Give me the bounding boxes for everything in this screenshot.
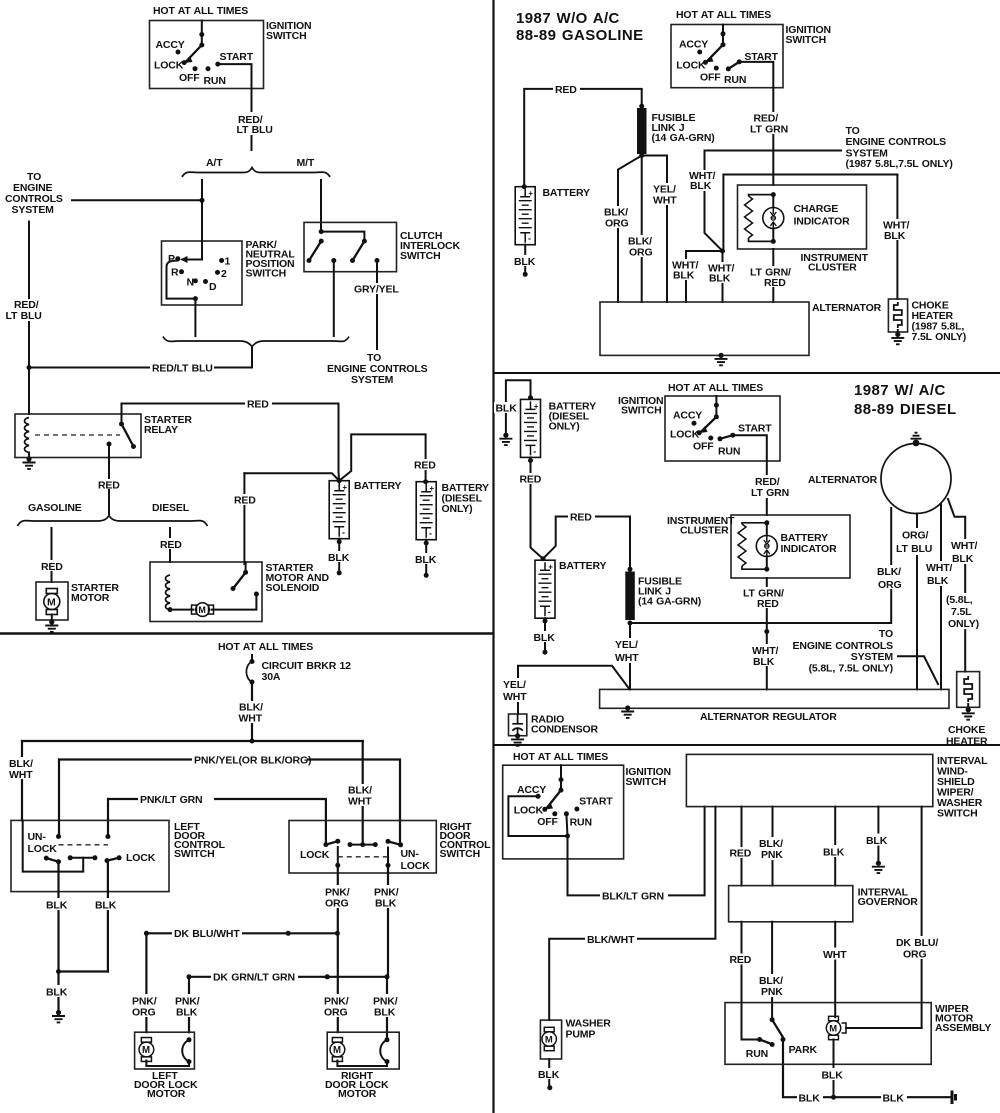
svg-text:88-89 GASOLINE: 88-89 GASOLINE [516, 27, 643, 44]
svg-text:SWITCH: SWITCH [174, 848, 215, 860]
svg-text:PARK: PARK [789, 1044, 818, 1056]
svg-text:WHT/: WHT/ [926, 562, 952, 574]
svg-text:ONLY): ONLY) [549, 421, 580, 433]
svg-text:ACCY: ACCY [679, 39, 708, 51]
svg-text:1987 W/O A/C: 1987 W/O A/C [516, 10, 620, 27]
svg-text:RED: RED [730, 848, 752, 860]
svg-text:PUMP: PUMP [566, 1029, 596, 1041]
svg-text:BLK/WHT: BLK/WHT [587, 934, 635, 946]
svg-text:RED: RED [764, 277, 786, 289]
svg-text:ASSEMBLY: ASSEMBLY [935, 1022, 991, 1034]
svg-text:SWITCH: SWITCH [621, 405, 662, 417]
svg-text:MOTOR: MOTOR [147, 1088, 186, 1100]
svg-text:OFF: OFF [179, 72, 200, 84]
svg-text:RED: RED [730, 954, 752, 966]
svg-text:CLUSTER: CLUSTER [680, 525, 729, 537]
svg-text:LOCK: LOCK [401, 860, 431, 872]
svg-text:DK GRN/LT GRN: DK GRN/LT GRN [213, 972, 295, 984]
svg-text:BLK: BLK [690, 180, 712, 192]
svg-text:SWITCH: SWITCH [626, 776, 667, 788]
svg-text:RED: RED [160, 539, 182, 551]
svg-text:HOT AT ALL TIMES: HOT AT ALL TIMES [513, 751, 608, 763]
svg-text:ACCY: ACCY [517, 784, 546, 796]
svg-text:GASOLINE: GASOLINE [28, 502, 82, 514]
svg-text:SOLENOID: SOLENOID [266, 582, 320, 594]
svg-text:WHT: WHT [9, 769, 33, 781]
svg-text:SWITCH: SWITCH [246, 268, 287, 280]
svg-text:LT BLU: LT BLU [6, 310, 42, 322]
svg-text:CHOKE: CHOKE [948, 724, 985, 736]
svg-text:30A: 30A [262, 671, 281, 683]
svg-text:WHT: WHT [239, 713, 263, 725]
svg-text:ALTERNATOR: ALTERNATOR [812, 302, 882, 314]
svg-text:BLK: BLK [709, 273, 731, 285]
svg-text:HOT AT ALL TIMES: HOT AT ALL TIMES [153, 5, 248, 17]
svg-text:ACCY: ACCY [156, 39, 185, 51]
svg-text:START: START [220, 51, 254, 63]
svg-text:LOCK: LOCK [676, 60, 706, 72]
svg-text:YEL/: YEL/ [615, 639, 638, 651]
svg-text:RED: RED [555, 84, 577, 96]
svg-text:GRY/YEL: GRY/YEL [354, 284, 399, 296]
svg-text:SWITCH: SWITCH [400, 250, 441, 262]
svg-text:BLK/LT GRN: BLK/LT GRN [602, 891, 664, 903]
svg-text:ORG: ORG [325, 898, 348, 910]
svg-text:ALTERNATOR REGULATOR: ALTERNATOR REGULATOR [700, 711, 837, 723]
svg-text:7.5L: 7.5L [951, 606, 972, 618]
svg-text:LOCK: LOCK [514, 805, 544, 817]
svg-text:RED: RED [41, 561, 63, 573]
svg-text:LOCK: LOCK [28, 843, 58, 855]
svg-text:LOCK: LOCK [154, 60, 184, 72]
svg-text:PNK: PNK [761, 986, 783, 998]
svg-text:RED: RED [757, 598, 779, 610]
svg-text:CLUSTER: CLUSTER [808, 262, 857, 274]
svg-text:HOT AT ALL TIMES: HOT AT ALL TIMES [676, 9, 771, 21]
svg-text:BLK: BLK [496, 403, 518, 415]
svg-text:RUN: RUN [724, 74, 746, 86]
svg-text:LOCK: LOCK [126, 852, 156, 864]
svg-text:CHARGE: CHARGE [794, 203, 839, 215]
svg-text:MOTOR: MOTOR [338, 1088, 377, 1100]
svg-text:M/T: M/T [297, 157, 315, 169]
svg-text:LOCK: LOCK [300, 849, 330, 861]
svg-text:BLK: BLK [753, 656, 775, 668]
svg-text:ORG: ORG [878, 579, 901, 591]
svg-text:R: R [171, 267, 179, 279]
svg-text:BATTERY: BATTERY [543, 187, 591, 199]
svg-text:ACCY: ACCY [673, 410, 702, 422]
svg-text:RED: RED [247, 399, 269, 411]
svg-text:ORG: ORG [324, 1007, 347, 1019]
svg-text:P: P [168, 253, 175, 265]
svg-text:BLK/: BLK/ [877, 566, 901, 578]
svg-text:1987 W/ A/C: 1987 W/ A/C [854, 382, 946, 399]
svg-text:UN-: UN- [28, 831, 47, 843]
svg-text:BLK: BLK [799, 1093, 821, 1105]
svg-text:(1987 5.8L,7.5L ONLY): (1987 5.8L,7.5L ONLY) [846, 158, 953, 170]
svg-text:RELAY: RELAY [144, 424, 178, 436]
svg-text:BLK: BLK [884, 230, 906, 242]
svg-text:BLK: BLK [822, 1070, 844, 1082]
svg-text:RED/LT BLU: RED/LT BLU [152, 363, 213, 375]
svg-text:BLK: BLK [46, 987, 68, 999]
svg-text:TO: TO [879, 628, 893, 640]
svg-text:BLK: BLK [375, 898, 397, 910]
svg-text:ONLY): ONLY) [442, 503, 473, 515]
svg-text:BLK: BLK [415, 554, 437, 566]
svg-text:RUN: RUN [570, 817, 592, 829]
svg-text:BLK: BLK [866, 835, 888, 847]
svg-text:RUN: RUN [746, 1048, 768, 1060]
svg-text:ORG: ORG [629, 247, 652, 259]
svg-text:(5.8L, 7.5L ONLY): (5.8L, 7.5L ONLY) [809, 663, 893, 675]
svg-text:WHT: WHT [615, 652, 639, 664]
svg-text:WHT: WHT [503, 691, 527, 703]
svg-text:BLK: BLK [95, 900, 117, 912]
svg-text:A/T: A/T [206, 157, 223, 169]
svg-text:BLK: BLK [328, 552, 350, 564]
svg-text:PNK: PNK [761, 849, 783, 861]
svg-text:ORG/: ORG/ [902, 530, 928, 542]
svg-text:BLK: BLK [176, 1007, 198, 1019]
svg-text:BLK: BLK [883, 1093, 905, 1105]
svg-text:(14 GA-GRN): (14 GA-GRN) [652, 132, 715, 144]
svg-text:SWITCH: SWITCH [937, 808, 978, 820]
svg-text:BLK: BLK [823, 847, 845, 859]
svg-text:LT GRN: LT GRN [751, 487, 789, 499]
svg-text:SWITCH: SWITCH [440, 848, 481, 860]
svg-text:SYSTEM: SYSTEM [851, 651, 894, 663]
svg-text:RED: RED [234, 495, 256, 507]
svg-text:DK BLU/: DK BLU/ [896, 937, 938, 949]
svg-text:1: 1 [225, 256, 231, 268]
svg-text:RED: RED [570, 512, 592, 524]
svg-text:DK BLU/WHT: DK BLU/WHT [174, 928, 240, 940]
svg-text:ORG: ORG [903, 949, 926, 961]
svg-text:START: START [579, 796, 613, 808]
svg-text:CONDENSOR: CONDENSOR [531, 724, 598, 736]
svg-text:ORG: ORG [132, 1007, 155, 1019]
svg-text:PNK/YEL(OR BLK/ORG): PNK/YEL(OR BLK/ORG) [194, 755, 311, 767]
svg-text:ONLY): ONLY) [948, 618, 979, 630]
svg-text:HEATER: HEATER [946, 736, 988, 748]
svg-text:SWITCH: SWITCH [266, 30, 307, 42]
svg-text:OFF: OFF [693, 441, 714, 453]
svg-text:BLK: BLK [514, 256, 536, 268]
svg-text:WHT: WHT [348, 796, 372, 808]
svg-text:D: D [209, 281, 217, 293]
svg-text:2: 2 [221, 268, 227, 280]
svg-text:WHT/: WHT/ [951, 540, 977, 552]
svg-text:MOTOR: MOTOR [71, 592, 110, 604]
svg-text:LT BLU: LT BLU [237, 124, 273, 136]
svg-text:BLK: BLK [374, 1007, 396, 1019]
svg-text:WHT: WHT [653, 195, 677, 207]
svg-text:LT GRN: LT GRN [750, 124, 788, 136]
svg-text:RED: RED [520, 474, 542, 486]
svg-text:HOT AT ALL TIMES: HOT AT ALL TIMES [218, 641, 313, 653]
svg-text:SYSTEM: SYSTEM [12, 204, 55, 216]
svg-text:HOT AT ALL TIMES: HOT AT ALL TIMES [668, 382, 763, 394]
svg-text:INDICATOR: INDICATOR [794, 216, 851, 228]
svg-text:START: START [738, 423, 772, 435]
svg-text:7.5L ONLY): 7.5L ONLY) [912, 331, 967, 343]
svg-text:M: M [198, 605, 206, 615]
svg-text:88-89 DIESEL: 88-89 DIESEL [854, 401, 957, 418]
svg-text:OFF: OFF [700, 72, 721, 84]
svg-text:BLK: BLK [534, 632, 556, 644]
svg-text:BATTERY: BATTERY [559, 560, 607, 572]
svg-text:BLK: BLK [927, 575, 949, 587]
svg-text:(14 GA-GRN): (14 GA-GRN) [638, 596, 701, 608]
svg-text:PNK/LT GRN: PNK/LT GRN [140, 794, 203, 806]
svg-text:OFF: OFF [537, 816, 558, 828]
svg-text:BLK: BLK [952, 553, 974, 565]
svg-text:LOCK: LOCK [670, 429, 700, 441]
svg-text:BATTERY: BATTERY [354, 480, 402, 492]
svg-text:BLK: BLK [538, 1069, 560, 1081]
svg-text:GOVERNOR: GOVERNOR [858, 896, 919, 908]
svg-text:BLK: BLK [673, 270, 695, 282]
svg-text:YEL/: YEL/ [503, 679, 526, 691]
svg-text:SYSTEM: SYSTEM [351, 374, 394, 386]
svg-text:UN-: UN- [401, 848, 420, 860]
svg-text:ORG: ORG [605, 218, 628, 230]
svg-text:N: N [187, 277, 194, 289]
svg-text:ALTERNATOR: ALTERNATOR [808, 474, 878, 486]
svg-text:RUN: RUN [718, 446, 740, 458]
svg-text:BLK: BLK [46, 900, 68, 912]
svg-text:DIESEL: DIESEL [152, 502, 190, 514]
svg-text:WHT: WHT [823, 949, 847, 961]
svg-text:(5.8L,: (5.8L, [946, 594, 973, 606]
svg-text:RED: RED [414, 460, 436, 472]
svg-text:SWITCH: SWITCH [786, 34, 827, 46]
svg-text:ENGINE CONTROLS: ENGINE CONTROLS [846, 136, 947, 148]
svg-text:LT BLU: LT BLU [896, 543, 932, 555]
svg-text:RUN: RUN [204, 75, 226, 87]
svg-text:INDICATOR: INDICATOR [781, 543, 838, 555]
